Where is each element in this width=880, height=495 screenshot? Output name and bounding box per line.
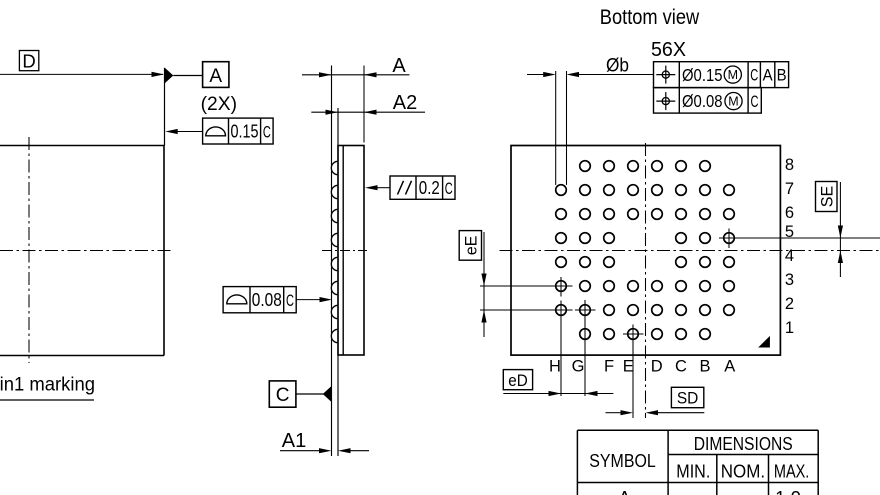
pin A1 corner triangle <box>758 336 770 348</box>
side view solder ball arcs <box>331 161 338 342</box>
svg-text:A: A <box>724 358 735 376</box>
svg-text:0.15: 0.15 <box>231 122 259 142</box>
datum C label box <box>269 381 296 407</box>
svg-text:A: A <box>618 487 631 495</box>
svg-text:DIMENSIONS: DIMENSIONS <box>694 433 793 454</box>
dimension A2 <box>311 92 425 115</box>
bottom view vertical centerline <box>645 143 647 418</box>
bottom view title <box>600 5 700 29</box>
eE dimension arrows <box>481 232 486 337</box>
profile tolerance frame 0.15 C <box>203 118 274 144</box>
bottom view package outline <box>511 146 780 356</box>
svg-text:3: 3 <box>785 271 794 289</box>
svg-text:F: F <box>604 358 614 376</box>
side view centerline <box>322 250 367 252</box>
svg-text:2: 2 <box>785 295 794 313</box>
position tolerance frame row1 <box>654 62 789 88</box>
SE dimension arrows <box>838 182 843 277</box>
svg-text:4: 4 <box>785 247 794 265</box>
dimension A <box>302 55 409 143</box>
position symbol row1 <box>656 66 675 84</box>
top view vertical centerline <box>28 137 30 363</box>
Pin1 marking note <box>0 375 95 401</box>
datum A label box <box>203 62 229 88</box>
svg-text:G: G <box>572 358 585 376</box>
svg-text:SYMBOL: SYMBOL <box>589 450 656 471</box>
eD label box <box>503 370 532 390</box>
ball A5 crosshair lines (SE reference) <box>719 229 880 249</box>
svg-text:SD: SD <box>677 389 699 408</box>
leader arrow for 0.2 frame <box>365 185 390 190</box>
eD dimension line <box>503 391 613 396</box>
dimension Øb <box>527 55 654 78</box>
svg-text:0.2: 0.2 <box>419 178 440 198</box>
SD label box <box>671 387 703 407</box>
svg-text:Øb: Øb <box>606 55 629 77</box>
parallelism frame 0.2 C <box>390 176 455 199</box>
svg-text:Ø0.08: Ø0.08 <box>682 91 723 111</box>
side view package body <box>338 146 364 356</box>
datum A triangle <box>165 68 203 83</box>
svg-text:M: M <box>728 68 738 82</box>
svg-text:SE: SE <box>817 186 836 208</box>
bottom view horizontal centerline <box>500 250 880 252</box>
svg-text:A: A <box>209 66 222 87</box>
svg-text:Bottom view: Bottom view <box>600 5 700 29</box>
svg-text:C: C <box>286 291 294 310</box>
svg-text:eE: eE <box>462 236 481 256</box>
eE label box <box>459 231 481 261</box>
table row A (clipped) <box>618 487 801 495</box>
dimension D label box <box>19 50 38 71</box>
svg-text:C: C <box>750 66 758 85</box>
dimension A1 <box>280 430 369 454</box>
svg-text:1.0: 1.0 <box>775 487 801 495</box>
svg-text:1: 1 <box>785 319 794 337</box>
svg-text:C: C <box>445 179 453 198</box>
svg-text:eD: eD <box>508 371 528 390</box>
tolerance text row1 <box>682 65 787 85</box>
svg-text:A1: A1 <box>282 430 306 452</box>
56X note <box>651 38 686 61</box>
SE label box <box>816 182 838 212</box>
ball G2 crosshair lines (eD reference) <box>575 300 596 396</box>
ball H3 crosshair lines (eE reference) <box>480 277 573 297</box>
solder ball grid 56X <box>556 161 735 340</box>
profile tolerance frame 0.08 C <box>223 287 296 313</box>
top view package outline <box>0 146 164 356</box>
extension line package right edge <box>164 68 166 146</box>
table header text <box>589 433 809 481</box>
svg-text:A: A <box>392 55 406 77</box>
svg-text:E: E <box>623 358 634 376</box>
svg-text:MAX.: MAX. <box>774 460 810 481</box>
(2X) note <box>201 94 237 115</box>
position symbol row2 <box>656 92 675 110</box>
row number labels <box>785 156 794 337</box>
svg-text:56X: 56X <box>651 38 686 61</box>
svg-text:MIN.: MIN. <box>676 460 710 481</box>
svg-text:D: D <box>22 50 35 71</box>
dimensions table grid <box>577 430 818 495</box>
svg-text:Pin1 marking: Pin1 marking <box>0 375 95 396</box>
datum C triangle <box>296 386 331 401</box>
svg-text:NOM.: NOM. <box>721 460 765 481</box>
position tolerance frame row2 <box>654 88 762 114</box>
svg-text:C: C <box>675 358 687 376</box>
ball H7 diameter reference lines <box>556 71 567 185</box>
svg-text:C: C <box>751 92 759 111</box>
column letter labels <box>549 358 735 376</box>
svg-text:6: 6 <box>785 204 794 222</box>
ball E1 crosshair lines (SD reference) <box>623 325 644 419</box>
svg-text:D: D <box>651 358 663 376</box>
svg-text:C: C <box>263 122 271 141</box>
dimension D line <box>0 72 164 77</box>
leader arrow for 0.08 frame <box>296 297 332 302</box>
svg-text:Ø0.15: Ø0.15 <box>682 65 723 85</box>
svg-text:M: M <box>728 95 738 109</box>
svg-text:B: B <box>777 66 787 85</box>
svg-text:5: 5 <box>785 223 794 241</box>
svg-text:B: B <box>699 358 710 376</box>
side view ball seat line <box>337 108 339 456</box>
ball H2 crosshair lines <box>480 301 573 397</box>
svg-text:C: C <box>276 385 290 406</box>
SD dimension line <box>606 410 705 415</box>
svg-text:8: 8 <box>785 156 794 174</box>
svg-text:0.08: 0.08 <box>252 290 282 310</box>
side view seating plane line (ball tips) <box>331 66 333 457</box>
leader arrow to edge for 0.15 frame <box>165 129 202 134</box>
svg-text:A: A <box>763 66 774 85</box>
svg-text:7: 7 <box>785 180 794 198</box>
tolerance text row2 <box>682 91 759 111</box>
svg-text:(2X): (2X) <box>201 94 237 115</box>
top view horizontal centerline <box>0 250 173 252</box>
svg-text:H: H <box>549 358 561 376</box>
svg-text:A2: A2 <box>393 92 417 114</box>
